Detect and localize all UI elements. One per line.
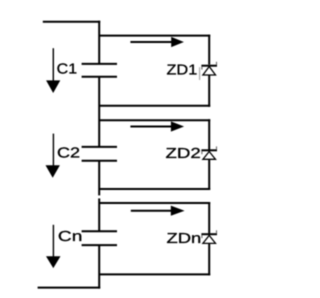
wire main vertical segment C2 down to joint [98,161,100,195]
wire loop 3 right upper [208,202,210,233]
zener diode ZDn [201,230,217,243]
wire main vertical segment C1 to C2 [98,77,100,146]
svg-text:C1: C1 [57,61,78,77]
wire loop 2 right upper [208,119,210,149]
voltage arrow section 2 [52,134,54,167]
current arrow loop 1 [130,41,172,43]
wire main vertical segment joint down to Cn [98,198,100,230]
svg-text:C2: C2 [57,145,80,161]
svg-text:Cn: Cn [58,229,82,245]
wire loop 2 right lower [208,160,210,191]
svg-text:ZD1: ZD1 [166,63,197,79]
wire loop 1 bottom [99,105,210,107]
wire loop 3 top [99,202,210,204]
voltage arrow section 1 [52,48,54,82]
zener diode ZD2 [201,146,217,159]
wire bottom output [38,287,101,289]
wire top input [43,21,100,23]
wire loop 2 bottom [99,188,210,190]
capacitor Cn plates [82,230,117,232]
wire loop 1 right upper [208,35,210,65]
wire main vertical segment above C1 [98,21,100,64]
capacitor C1 plates [82,63,117,65]
capacitor C2 plates [82,146,117,148]
wire loop 3 bottom [99,273,210,275]
wire loop 2 top [99,119,210,121]
wire loop 1 top [99,35,210,37]
svg-text:ZDn: ZDn [166,231,201,247]
wire main vertical segment below Cn [98,246,100,289]
artifact gray mark right of ZD1 label [199,67,201,80]
zener diode ZD1 [201,62,217,75]
svg-text:ZD2: ZD2 [166,146,201,162]
current arrow loop 3 [131,210,173,212]
wire loop 3 right lower [208,244,210,276]
wire loop 1 right lower [208,75,210,107]
current arrow loop 2 [130,126,172,128]
voltage arrow section 3 [52,225,54,258]
